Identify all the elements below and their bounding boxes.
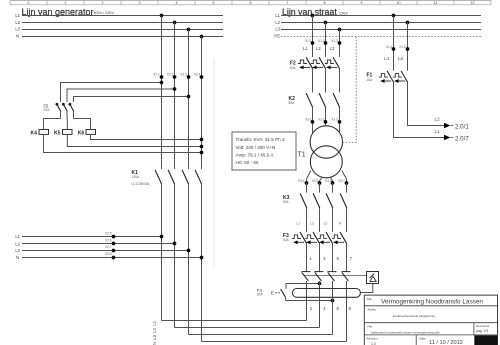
svg-text:Amp: 79.1 / 45.5 A: Amp: 79.1 / 45.5 A bbox=[236, 152, 275, 157]
svg-text:K6: K6 bbox=[78, 131, 85, 137]
svg-text:7: 7 bbox=[287, 1, 289, 5]
wire L1 generator bus bbox=[22, 15, 223, 17]
wire L3 drop to K1 bbox=[188, 30, 190, 170]
terminal X3.6 bbox=[325, 179, 334, 185]
off-page arrow to 2.0/1 bbox=[444, 123, 469, 131]
svg-text:400V / 230V: 400V / 230V bbox=[94, 11, 115, 15]
svg-text:L3: L3 bbox=[152, 334, 157, 339]
svg-text:50A: 50A bbox=[283, 200, 290, 204]
junction L2 tap bbox=[173, 21, 177, 25]
svg-text:4: 4 bbox=[176, 1, 178, 5]
junction L1 tap bbox=[160, 14, 164, 18]
breaker F3 pole 3 bbox=[318, 232, 333, 244]
wire street L2 drop bbox=[325, 23, 327, 58]
terminal X2.2 bbox=[167, 73, 177, 79]
breaker F2 label bbox=[290, 61, 297, 70]
column header strip bbox=[10, 1, 491, 6]
svg-text:L3: L3 bbox=[15, 27, 20, 32]
contactor K1 pole 2 bbox=[168, 170, 175, 185]
wire L2 street bus bbox=[281, 22, 481, 24]
terminal X2.5 bbox=[105, 231, 115, 238]
wire PE dashed to T1 bbox=[343, 37, 356, 143]
svg-text:X2.1: X2.1 bbox=[153, 73, 160, 77]
svg-text:L1: L1 bbox=[384, 56, 390, 61]
wire faint section divider bbox=[213, 58, 215, 268]
wire K4 coil return to N bbox=[44, 134, 204, 154]
svg-text:4: 4 bbox=[323, 306, 326, 311]
off-page arrow to 2.0/7 bbox=[444, 135, 469, 143]
terminal X2.3 bbox=[180, 73, 190, 79]
wire T1 to K3 pole1 bbox=[306, 183, 308, 193]
svg-text:11: 11 bbox=[434, 1, 438, 5]
svg-text:X3.7: X3.7 bbox=[338, 179, 345, 183]
svg-text:E: E bbox=[271, 290, 274, 295]
svg-text:X3.6: X3.6 bbox=[325, 179, 332, 183]
svg-text:1: 1 bbox=[310, 256, 313, 261]
terminal X3.1 bbox=[305, 118, 314, 124]
wire F2 to K2 pole3 bbox=[339, 69, 341, 93]
svg-text:X2.5: X2.5 bbox=[105, 231, 112, 235]
breaker F3 pole 1 bbox=[292, 232, 307, 244]
breaker F1 pole 1 bbox=[379, 71, 394, 83]
terminal X2.8 bbox=[105, 252, 115, 259]
svg-text:L2: L2 bbox=[435, 117, 441, 123]
contactor K3 pole 3 bbox=[326, 193, 333, 208]
svg-text:X1.2: X1.2 bbox=[318, 39, 325, 43]
wire F5 pole3 to K6 coil bbox=[74, 119, 91, 130]
RCD pole 1 bbox=[302, 272, 311, 281]
RCD toroid core bbox=[292, 289, 360, 298]
wire K2 to T1 pole2 bbox=[325, 108, 327, 126]
svg-text:X3.3: X3.3 bbox=[331, 118, 338, 122]
svg-text:3: 3 bbox=[139, 1, 141, 5]
wire F2 to K2 pole2 bbox=[325, 69, 327, 93]
contactor K3 label bbox=[283, 195, 290, 204]
RCD pole 4 bbox=[342, 272, 351, 281]
terminal X2.6 bbox=[105, 239, 115, 246]
wire L1 drop to K1 bbox=[161, 16, 163, 170]
terminal X1.5 bbox=[399, 45, 409, 51]
wire L2 drop to K1 bbox=[174, 23, 176, 170]
wire F3 to RCD pole1 bbox=[306, 244, 308, 272]
contactor K3 pole 2 bbox=[313, 193, 320, 208]
svg-text:8: 8 bbox=[324, 1, 326, 5]
terminal X2.1 bbox=[153, 73, 163, 79]
svg-text:K5: K5 bbox=[54, 131, 61, 137]
wire F3 to RCD pole4 bbox=[346, 244, 348, 272]
svg-text:2.0/1: 2.0/1 bbox=[455, 123, 469, 130]
svg-text:T1: T1 bbox=[298, 152, 306, 159]
svg-text:X1.4: X1.4 bbox=[386, 45, 393, 49]
svg-text:2: 2 bbox=[102, 1, 104, 5]
svg-text:50A: 50A bbox=[289, 101, 296, 105]
wire L2 bottom rail bbox=[175, 327, 320, 329]
breaker F3 label bbox=[283, 233, 290, 242]
svg-text:N: N bbox=[16, 34, 19, 39]
svg-text:elektriciteit noodtransfo lass: elektriciteit noodtransfo lassen vermoge… bbox=[371, 331, 440, 335]
svg-text:X2.7: X2.7 bbox=[105, 245, 112, 249]
contactor K1 pole 3 bbox=[182, 170, 189, 185]
svg-text:Hrt: 50 - 60: Hrt: 50 - 60 bbox=[236, 160, 259, 165]
svg-text:3: 3 bbox=[323, 256, 326, 261]
svg-text:File: File bbox=[368, 325, 373, 329]
terminal X1.1 bbox=[305, 39, 314, 45]
wire T1 secondary fan 1 bbox=[307, 171, 311, 183]
svg-text:X3.2: X3.2 bbox=[318, 118, 325, 122]
wire L3 bottom rail bbox=[189, 334, 333, 336]
svg-text:LC1 D80084: LC1 D80084 bbox=[132, 182, 150, 186]
svg-text:L3: L3 bbox=[324, 222, 328, 226]
svg-text:1: 1 bbox=[65, 1, 67, 5]
wire F3 to RCD pole2 bbox=[319, 244, 321, 272]
svg-text:5: 5 bbox=[213, 1, 215, 5]
breaker F2 pole 2 bbox=[311, 57, 326, 69]
wire F1 L1 drop bbox=[393, 16, 395, 71]
wire K6 coil return to N bbox=[91, 134, 204, 141]
junction F1 L1 tap bbox=[392, 14, 396, 18]
relay coil K5 bbox=[54, 130, 72, 137]
contactor K3 pole 4 bbox=[340, 193, 347, 208]
relay coil K6 bbox=[78, 130, 96, 137]
wire K5 coil return to N bbox=[67, 134, 203, 148]
svg-text:L2: L2 bbox=[152, 327, 157, 332]
terminal X1.3 bbox=[331, 39, 341, 45]
wire T1 secondary fan 4 bbox=[342, 171, 347, 183]
junction F1 L2 tap bbox=[406, 21, 410, 25]
svg-text:L1: L1 bbox=[152, 320, 157, 325]
svg-text:L2: L2 bbox=[398, 56, 404, 61]
svg-text:pag. 1/3: pag. 1/3 bbox=[476, 329, 488, 333]
wire N generator bus bbox=[22, 36, 223, 38]
terminal X3.7 bbox=[338, 179, 348, 185]
terminal X3.2 bbox=[318, 118, 327, 124]
junction N tap bbox=[200, 35, 204, 39]
terminal X1.2 bbox=[318, 39, 327, 45]
svg-text:12: 12 bbox=[471, 1, 475, 5]
svg-text:L1: L1 bbox=[435, 129, 441, 135]
svg-text:L2: L2 bbox=[316, 46, 321, 51]
terminal X1.4 bbox=[386, 45, 396, 51]
svg-text:230V: 230V bbox=[339, 11, 348, 15]
svg-text:Vermogenkring Noodtransfo Lass: Vermogenkring Noodtransfo Lassen bbox=[381, 298, 483, 305]
junction street L3 tap bbox=[338, 28, 342, 32]
wire RCD pole2 down bbox=[319, 281, 321, 328]
contactor K1 pole 4 bbox=[195, 170, 202, 185]
transformer T1 bbox=[298, 126, 343, 178]
svg-text:D02: D02 bbox=[44, 108, 50, 112]
svg-text:X3.1: X3.1 bbox=[305, 118, 312, 122]
terminal X3.3 bbox=[331, 118, 341, 124]
relay coil K4 bbox=[31, 130, 49, 137]
svg-text:L2: L2 bbox=[15, 20, 20, 25]
svg-text:L3: L3 bbox=[15, 248, 20, 253]
wire F4 trip to L3 bbox=[286, 299, 335, 303]
wire T1 secondary fan 2 bbox=[320, 177, 323, 183]
svg-text:Date: Date bbox=[420, 336, 426, 340]
svg-text:0: 0 bbox=[28, 1, 30, 5]
svg-text:9: 9 bbox=[361, 1, 363, 5]
svg-text:X2.8: X2.8 bbox=[105, 252, 112, 256]
wire F5 feed from L3 bbox=[74, 95, 191, 102]
wire K2 to T1 pole1 bbox=[312, 108, 314, 133]
junction L3 tap bbox=[187, 28, 191, 32]
wire street L1 drop bbox=[312, 16, 314, 58]
contactor K2 pole 3 bbox=[333, 93, 340, 108]
wire N outgoing row bbox=[22, 256, 203, 260]
svg-text:L1: L1 bbox=[303, 46, 308, 51]
wire L1 below K1 bbox=[161, 185, 163, 321]
junction street L2 tap bbox=[324, 21, 328, 25]
wire T1 secondary fan 3 bbox=[331, 177, 333, 183]
wire T1 to K3 pole3 bbox=[332, 183, 334, 193]
wire street L3 drop bbox=[339, 30, 341, 58]
wire N bottom rail bbox=[202, 341, 347, 343]
svg-text:Transfo: KVA: 31.5 Ph 3: Transfo: KVA: 31.5 Ph 3 bbox=[236, 137, 285, 142]
wire RCD pole3 down bbox=[332, 281, 334, 335]
svg-text:X1.5: X1.5 bbox=[399, 45, 406, 49]
generator feeder title bbox=[22, 7, 115, 17]
wire F1 L1 out bbox=[394, 82, 445, 137]
svg-text:Document: Document bbox=[476, 324, 489, 328]
wire F3 to RCD pole3 bbox=[332, 244, 334, 272]
wire T1 to K3 pole2 bbox=[319, 183, 321, 193]
svg-text:L1: L1 bbox=[275, 13, 280, 18]
svg-text:X2.4: X2.4 bbox=[194, 73, 201, 77]
wire F5 feed from L2 bbox=[67, 87, 176, 102]
terminal X2.4 bbox=[194, 73, 204, 79]
fuse-switch F5 pole 2 bbox=[62, 103, 67, 119]
contactor K1 pole 1 bbox=[155, 170, 162, 185]
svg-text:L2: L2 bbox=[275, 20, 280, 25]
svg-text:6: 6 bbox=[250, 1, 252, 5]
wire L2 generator bus bbox=[22, 22, 223, 24]
wire L3 street bus bbox=[281, 29, 481, 31]
svg-text:Title: Title bbox=[367, 297, 373, 301]
transformer T1 spec box bbox=[232, 132, 296, 170]
svg-text:K4: K4 bbox=[31, 131, 38, 137]
wire F1 L2 out bbox=[408, 82, 445, 125]
svg-text:L1: L1 bbox=[15, 13, 20, 18]
title block bbox=[364, 295, 497, 345]
svg-text:L1: L1 bbox=[15, 234, 20, 239]
breaker F3 pole 2 bbox=[305, 232, 320, 244]
RCD mechanism bar bbox=[304, 275, 367, 277]
svg-text:Volt: 230 / 400 V+N: Volt: 230 / 400 V+N bbox=[236, 145, 276, 150]
svg-text:2.0/7: 2.0/7 bbox=[455, 135, 469, 142]
terminal X2.7 bbox=[105, 245, 115, 252]
breaker F2 pole 3 bbox=[325, 57, 340, 69]
contactor K2 pole 1 bbox=[306, 93, 313, 108]
wire K3 to F3 pole3 bbox=[332, 208, 334, 232]
svg-text:X1.1: X1.1 bbox=[305, 39, 312, 43]
svg-text:5: 5 bbox=[337, 256, 340, 261]
wire N below K1 bbox=[201, 185, 203, 342]
breaker F2 pole 1 bbox=[298, 57, 313, 69]
wire L3 generator bus bbox=[22, 29, 223, 31]
wire N drop to K1 bbox=[201, 37, 203, 170]
wire K3 to F3 pole2 bbox=[319, 208, 321, 232]
svg-text:PE: PE bbox=[274, 34, 280, 39]
svg-text:30A: 30A bbox=[257, 292, 264, 296]
svg-text:L2: L2 bbox=[310, 222, 314, 226]
fuse-switch F5 label bbox=[44, 103, 50, 112]
junction street L1 tap bbox=[311, 14, 315, 18]
breaker F1 label bbox=[367, 73, 374, 83]
breaker F3 pole 4 bbox=[332, 232, 347, 244]
svg-text:50A: 50A bbox=[283, 238, 290, 242]
wire F4 sense from L2 bbox=[286, 282, 321, 289]
svg-text:L2: L2 bbox=[15, 241, 20, 246]
wire L2 outgoing row bbox=[22, 242, 176, 246]
svg-text:8: 8 bbox=[349, 306, 352, 311]
street feeder title bbox=[282, 7, 348, 17]
svg-text:20A: 20A bbox=[367, 78, 374, 82]
wire F2 to K2 pole1 bbox=[312, 69, 314, 93]
wire L1 street bus bbox=[281, 15, 481, 17]
fuse-switch F5 pole 3 bbox=[69, 103, 74, 119]
RCD pole 2 bbox=[315, 272, 324, 281]
terminal X3.5 bbox=[312, 179, 322, 185]
svg-text:10: 10 bbox=[397, 1, 401, 5]
RCD pole 3 bbox=[328, 272, 337, 281]
RCD test device U bbox=[367, 272, 379, 284]
wire L1 outgoing row bbox=[22, 235, 163, 239]
wire L3 below K1 bbox=[188, 185, 190, 335]
wire F1 L2 drop bbox=[407, 23, 409, 71]
svg-text:kevanseclecticedu.blogspot.be: kevanseclecticedu.blogspot.be bbox=[393, 314, 435, 318]
svg-text:X1.3: X1.3 bbox=[331, 39, 338, 43]
svg-text:X2.6: X2.6 bbox=[105, 239, 112, 243]
svg-text:2: 2 bbox=[310, 306, 313, 311]
fuse-switch F5 pole 1 bbox=[56, 103, 61, 119]
wire RCD pole1 down bbox=[306, 281, 308, 321]
svg-text:125A: 125A bbox=[132, 175, 140, 179]
svg-text:L1: L1 bbox=[297, 222, 301, 226]
contactor K3 pole 1 bbox=[300, 193, 307, 208]
svg-text:X3.4: X3.4 bbox=[298, 179, 305, 183]
wire L3 outgoing row bbox=[22, 249, 190, 253]
wire test device to toroid bbox=[360, 284, 372, 293]
svg-text:60A: 60A bbox=[290, 66, 297, 70]
svg-text:L3: L3 bbox=[330, 46, 335, 51]
svg-text:X3.5: X3.5 bbox=[312, 179, 319, 183]
RCD F4 label bbox=[257, 288, 264, 296]
wire RCD pole4 down bbox=[346, 281, 348, 342]
terminal X3.4 bbox=[298, 179, 308, 185]
svg-text:Revision: Revision bbox=[367, 336, 378, 340]
wire PE street bus dashed bbox=[281, 36, 481, 38]
svg-text:Author: Author bbox=[368, 308, 377, 312]
svg-text:N: N bbox=[16, 255, 19, 260]
wire F5 pole1 to K4 coil bbox=[44, 119, 61, 130]
wire L1 bottom rail bbox=[162, 320, 307, 322]
wire T1 to K3 pole4 bbox=[346, 183, 348, 193]
breaker F1 pole 2 bbox=[393, 71, 408, 83]
svg-text:N: N bbox=[339, 222, 342, 226]
contactor K2 pole 2 bbox=[319, 93, 326, 108]
svg-text:7: 7 bbox=[350, 256, 353, 261]
svg-text:6: 6 bbox=[337, 306, 340, 311]
wire F5 pole2 to K5 coil bbox=[66, 119, 68, 130]
RCD F4 trip switch E bbox=[271, 289, 286, 301]
contactor K1 label bbox=[132, 170, 150, 186]
wire L2 below K1 bbox=[174, 185, 176, 328]
svg-text:11 / 10 / 2012: 11 / 10 / 2012 bbox=[429, 340, 463, 345]
svg-text:X2.3: X2.3 bbox=[180, 73, 187, 77]
wire F5 feed from L1 bbox=[61, 81, 164, 102]
contactor K2 label bbox=[289, 96, 296, 105]
wire K3 to F3 pole1 bbox=[306, 208, 308, 232]
svg-text:X2.2: X2.2 bbox=[167, 73, 174, 77]
wire K3 to F3 pole4 bbox=[346, 208, 348, 232]
wire K2 to T1 pole3 bbox=[339, 108, 341, 133]
svg-text:L3: L3 bbox=[275, 27, 280, 32]
